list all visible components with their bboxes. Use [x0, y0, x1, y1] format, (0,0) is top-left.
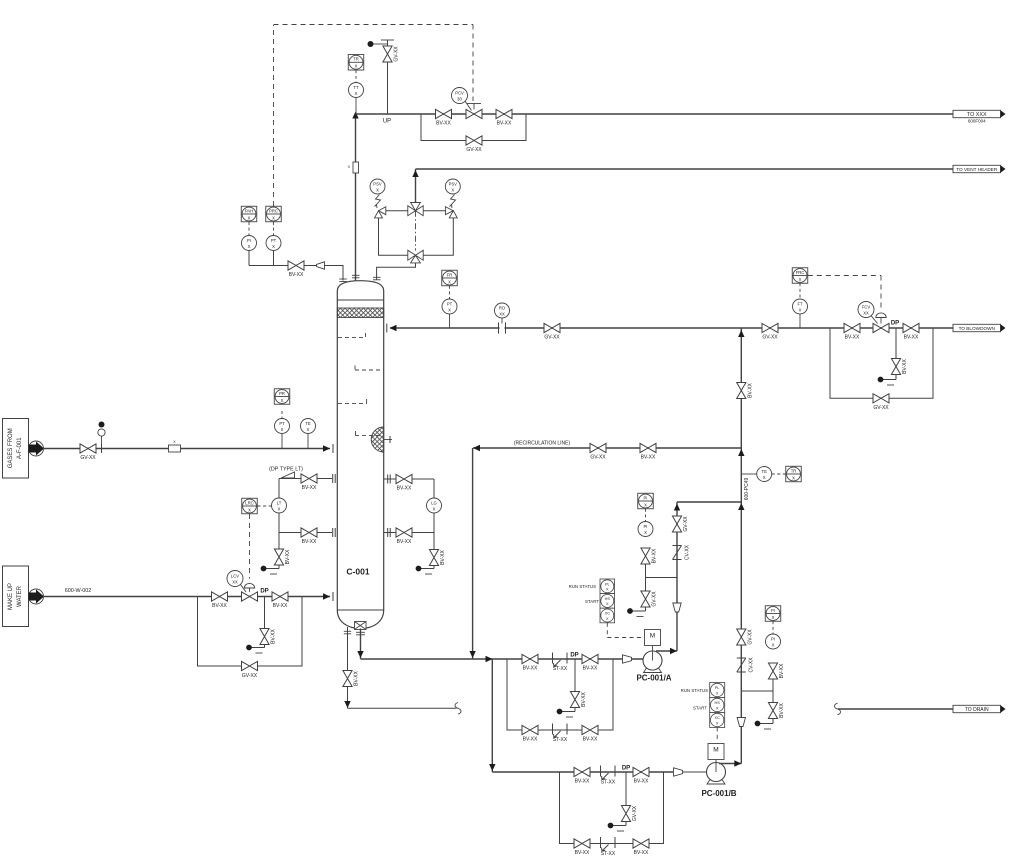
- svg-text:X: X: [644, 502, 647, 507]
- valve BV-XX LT drain: [274, 549, 283, 565]
- svg-text:X: X: [772, 615, 775, 620]
- svg-text:BV-XX: BV-XX: [634, 779, 649, 785]
- wire recirculation downcomer: [472, 448, 474, 659]
- instrument PI/X pump B: [766, 634, 781, 649]
- flag TO XXX 600F004: [953, 110, 1001, 117]
- pump B standby loop: [560, 772, 664, 844]
- blowdown bypass loop with GV-XX: [830, 328, 933, 398]
- valve BV-XX LG lower: [396, 528, 412, 537]
- svg-text:PT: PT: [279, 421, 285, 426]
- svg-text:PI: PI: [247, 238, 251, 243]
- valve BV-XX PI tap A: [641, 548, 650, 564]
- svg-text:BV-XX: BV-XX: [747, 382, 753, 397]
- wire overhead line to TO XXX: [356, 113, 954, 115]
- svg-text:X: X: [433, 507, 436, 512]
- instrument PI shared display pump B: [765, 606, 781, 622]
- svg-text:GV-XX: GV-XX: [466, 147, 482, 153]
- svg-text:GV-XX: GV-XX: [394, 46, 400, 62]
- svg-text:30: 30: [457, 97, 462, 102]
- svg-text:UP: UP: [383, 119, 391, 125]
- svg-text:PI: PI: [771, 637, 775, 642]
- dashed signal LT to LRC: [258, 505, 272, 507]
- svg-text:BV-XX: BV-XX: [497, 121, 512, 127]
- svg-text:PT: PT: [447, 302, 453, 307]
- drain with valve BV-XX at FCV: [895, 328, 897, 359]
- wire drain line with break: [348, 707, 457, 709]
- drain with valve BV-XX pump A suction: [574, 659, 576, 692]
- instrument PRC/X shared display: [266, 206, 282, 222]
- svg-text:BV-XX: BV-XX: [436, 121, 451, 127]
- svg-text:BV-XX: BV-XX: [583, 737, 598, 743]
- strainer ST-XX standby B: [600, 837, 602, 848]
- valve BV-XX overhead upstream: [436, 109, 452, 118]
- svg-text:START: START: [693, 706, 707, 711]
- control valve LCV/XX: [242, 592, 258, 601]
- svg-text:X: X: [281, 427, 284, 432]
- svg-text:X: X: [248, 244, 251, 249]
- svg-text:DP: DP: [622, 766, 630, 772]
- svg-text:PI: PI: [644, 495, 648, 500]
- flag TO DRAIN: [953, 705, 1001, 712]
- valve BV-XX upstream FCV: [844, 323, 860, 332]
- svg-text:600-PC49: 600-PC49: [744, 478, 750, 501]
- svg-text:CV-XX: CV-XX: [685, 544, 691, 560]
- valve BV-XX instrument tap: [288, 261, 304, 270]
- drain with valve BV-XX water line: [264, 597, 266, 629]
- svg-text:X: X: [606, 617, 609, 621]
- reducer pump B suction: [674, 768, 683, 776]
- svg-text:BV-XX: BV-XX: [641, 455, 656, 461]
- reducer pump A discharge: [673, 603, 681, 612]
- column side nozzle with hatched head: [371, 427, 384, 452]
- svg-text:BV-XX: BV-XX: [289, 272, 304, 278]
- dashed signal panel to motor B: [716, 728, 718, 743]
- svg-text:GASES FROM: GASES FROM: [8, 428, 14, 468]
- riser flange ticks: [352, 274, 360, 276]
- instrument TR/X shared display: [355, 70, 357, 82]
- valve BV-XX column drain: [343, 671, 352, 687]
- svg-text:ST-XX: ST-XX: [553, 737, 568, 743]
- svg-text:PI: PI: [771, 608, 775, 613]
- valve BV-XX pump A suction 2: [582, 654, 598, 663]
- svg-text:PL: PL: [605, 582, 610, 586]
- svg-text:CV-XX: CV-XX: [749, 657, 755, 673]
- wire PSV inlet to column nozzle: [377, 263, 416, 280]
- wire LT upper tap: [279, 478, 332, 480]
- svg-text:BV-XX: BV-XX: [302, 485, 317, 491]
- motor M pump B: [708, 744, 724, 760]
- svg-text:GV-XX: GV-XX: [590, 455, 606, 461]
- svg-text:PR: PR: [279, 391, 285, 396]
- wire gases feed line: [43, 448, 330, 450]
- svg-text:ST-XX: ST-XX: [601, 780, 616, 786]
- svg-text:TT: TT: [353, 85, 359, 90]
- svg-text:X: X: [606, 602, 609, 606]
- column internal dashed level 2: [355, 369, 384, 371]
- svg-text:FR: FR: [447, 272, 453, 277]
- svg-text:WATER: WATER: [17, 585, 23, 607]
- instrument FR/X shared display: [442, 270, 458, 286]
- svg-text:ST-XX: ST-XX: [601, 851, 616, 857]
- svg-text:X: X: [272, 215, 275, 220]
- svg-text:BV-XX: BV-XX: [523, 666, 538, 672]
- dashed signal FRC to FCV: [808, 275, 881, 277]
- valve GV-XX blowdown: [544, 323, 560, 332]
- svg-text:BV-XX: BV-XX: [397, 539, 412, 545]
- instrument FRC/X shared display: [792, 268, 808, 284]
- svg-text:LG: LG: [431, 501, 437, 506]
- svg-text:GV-XX: GV-XX: [242, 673, 258, 679]
- svg-text:X: X: [716, 721, 719, 725]
- LT flag symbol: [281, 472, 295, 478]
- valve BV-XX water line: [212, 592, 228, 601]
- svg-text:XC: XC: [605, 612, 611, 616]
- svg-text:BV-XX: BV-XX: [354, 670, 360, 685]
- svg-text:XC: XC: [715, 716, 721, 720]
- vent line UP with valve GV-XX: [387, 62, 389, 114]
- instrument PI/X: [242, 236, 257, 251]
- wire instrument taps to column top nozzle: [248, 251, 250, 266]
- wire to TO VENT HEADER: [416, 168, 954, 170]
- instrument PR shared display gases line: [274, 389, 290, 405]
- wire LT bridle: [278, 479, 280, 499]
- svg-text:TO BLOWDOWN: TO BLOWDOWN: [959, 326, 995, 331]
- instrument LT/X: [272, 498, 287, 513]
- svg-text:M: M: [650, 633, 655, 640]
- svg-text:PRC: PRC: [269, 208, 278, 213]
- strainer ST-XX pump A: [552, 653, 554, 664]
- wire pump discharge header 600-PC49: [740, 328, 742, 764]
- svg-text:GV-XX: GV-XX: [873, 405, 889, 411]
- pump A standby loop: [507, 659, 613, 730]
- column bottom outlet valve: [355, 622, 367, 630]
- sample connection: [101, 444, 103, 453]
- valve GV-XX gases feed: [80, 444, 96, 453]
- instrument LRC shared display: [242, 498, 258, 514]
- svg-text:X: X: [716, 691, 719, 695]
- wire column outlet to pump suction header: [360, 629, 362, 659]
- svg-text:RO: RO: [499, 306, 506, 311]
- valve BV-XX LT lower: [301, 528, 317, 537]
- svg-text:FCV: FCV: [862, 305, 871, 310]
- svg-text:TO DRAIN: TO DRAIN: [965, 707, 989, 713]
- restriction orifice RO/XX: [501, 318, 503, 324]
- wire make-up water line: [43, 596, 330, 598]
- svg-text:M: M: [713, 747, 718, 754]
- svg-text:PSV: PSV: [449, 182, 458, 187]
- wire LG upper tap: [384, 478, 434, 480]
- svg-text:XX: XX: [863, 311, 869, 316]
- svg-text:DP: DP: [260, 589, 268, 595]
- wire LG bridle: [433, 479, 435, 498]
- svg-text:X: X: [281, 398, 284, 403]
- svg-text:PC-001/A: PC-001/A: [636, 674, 671, 683]
- valve GV-XX drain pump A discharge: [641, 591, 650, 607]
- control valve FCV/XX: [873, 323, 889, 332]
- wire PSV left loop: [379, 218, 408, 255]
- valve BV-XX pump A suction: [522, 654, 538, 663]
- wire suction branch to pump B: [491, 659, 493, 772]
- svg-text:MAKE UP: MAKE UP: [8, 583, 14, 610]
- flow arrow into column: [390, 325, 397, 331]
- valve BV-XX downstream FCV: [903, 323, 919, 332]
- wire pump B discharge: [719, 763, 741, 765]
- svg-text:PCV: PCV: [455, 91, 464, 96]
- flow arrow into column water: [323, 593, 330, 599]
- svg-text:TO XXX: TO XXX: [967, 112, 987, 118]
- dash-dot interlock line: [415, 211, 417, 251]
- svg-text:TE: TE: [762, 469, 768, 474]
- svg-text:BV-XX: BV-XX: [397, 486, 412, 492]
- svg-text:X: X: [451, 188, 454, 193]
- svg-text:PT: PT: [271, 238, 277, 243]
- svg-text:BV-XX: BV-XX: [779, 663, 785, 678]
- instrument LG/X: [427, 498, 442, 513]
- valve BV-XX pump B suction: [574, 767, 590, 776]
- three-way valve bottom: [408, 250, 423, 263]
- valve BV-XX standby B right: [633, 839, 649, 848]
- svg-text:BV-XX: BV-XX: [302, 539, 317, 545]
- svg-text:X: X: [799, 277, 802, 282]
- motor M pump A: [645, 630, 661, 646]
- svg-text:GV-XX: GV-XX: [80, 455, 96, 461]
- svg-text:X: X: [606, 588, 609, 592]
- dashed signal panel to motor A: [606, 623, 608, 638]
- instrument TT/X: [355, 97, 357, 114]
- svg-text:GV-XX: GV-XX: [747, 629, 753, 645]
- svg-text:X: X: [792, 475, 795, 480]
- svg-text:BV-XX: BV-XX: [634, 850, 649, 856]
- flag TO BLOWDOWN: [953, 324, 1001, 331]
- svg-text:BV-XX: BV-XX: [575, 850, 590, 856]
- wire pump suction header: [361, 658, 644, 660]
- valve BV-XX overhead downstream: [496, 109, 512, 118]
- svg-text:C-001: C-001: [346, 567, 369, 577]
- wire PSV right loop: [423, 218, 453, 255]
- svg-text:TR: TR: [353, 57, 359, 62]
- svg-text:GV-XX: GV-XX: [683, 516, 689, 532]
- svg-text:BV-XX: BV-XX: [845, 335, 860, 341]
- svg-text:X: X: [355, 64, 358, 69]
- inline flame arrestor X: [353, 162, 359, 173]
- svg-text:X: X: [376, 188, 379, 193]
- svg-text:PI: PI: [644, 524, 648, 529]
- valve BV-XX recirculation: [640, 443, 656, 452]
- svg-text:600-W-002: 600-W-002: [65, 588, 92, 594]
- pump B discharge PI branch: [741, 690, 773, 692]
- check valve CV-XX pump B discharge: [737, 657, 746, 659]
- svg-text:TR: TR: [791, 468, 797, 473]
- wire overhead riser: [355, 114, 357, 281]
- svg-text:LT: LT: [277, 501, 282, 506]
- svg-text:FT: FT: [797, 302, 803, 307]
- svg-text:X: X: [355, 91, 358, 96]
- strainer ST-XX standby A: [552, 724, 554, 735]
- svg-text:BV-XX: BV-XX: [440, 549, 446, 564]
- wire to drain with break: [838, 708, 953, 710]
- svg-text:BV-XX: BV-XX: [652, 548, 658, 563]
- strainer ST-XX pump B: [600, 766, 602, 777]
- svg-text:HS: HS: [605, 597, 611, 601]
- svg-text:TE: TE: [305, 421, 311, 426]
- instrument PT/X: [266, 236, 281, 251]
- valve GV-XX recirculation: [590, 443, 606, 452]
- valve BV-XX LT upper: [301, 474, 317, 483]
- svg-text:BV-XX: BV-XX: [779, 702, 785, 717]
- svg-text:XX: XX: [499, 312, 505, 317]
- pump A discharge PI branch: [646, 577, 678, 579]
- reducer pump B discharge: [737, 718, 745, 727]
- svg-text:LRC: LRC: [245, 500, 253, 505]
- svg-text:XX: XX: [232, 580, 238, 585]
- valve BV-XX LG upper: [396, 474, 412, 483]
- three-way valve top: [408, 203, 423, 216]
- svg-text:START: START: [585, 599, 599, 604]
- flow arrow up at elbow: [352, 112, 358, 119]
- column top weld line: [337, 299, 383, 301]
- wire pump A discharge: [656, 650, 677, 652]
- valve BV-XX PI tap B: [768, 663, 777, 679]
- svg-text:BV-XX: BV-XX: [523, 737, 538, 743]
- svg-text:RUN STATUS: RUN STATUS: [569, 584, 596, 589]
- water bypass loop with GV-XX: [198, 597, 303, 667]
- column packing band: [337, 308, 383, 318]
- control valve PCV/30: [466, 109, 482, 118]
- svg-text:X: X: [248, 215, 251, 220]
- svg-text:BV-XX: BV-XX: [902, 358, 908, 373]
- valve BV-XX standby A right: [582, 725, 598, 734]
- svg-text:BV-XX: BV-XX: [212, 603, 227, 609]
- valve GV-XX pump A discharge: [672, 516, 681, 532]
- dashed signal LRC to LCV: [249, 514, 251, 579]
- check valve CV-XX pump A discharge: [673, 545, 682, 547]
- svg-text:X: X: [307, 427, 310, 432]
- svg-text:HS: HS: [715, 701, 721, 705]
- reducer: [317, 262, 325, 269]
- wire PSV vent riser: [415, 169, 417, 203]
- column internal dashed level 4: [355, 434, 384, 436]
- svg-text:(DP TYPE LT): (DP TYPE LT): [269, 467, 303, 473]
- wire column drain leg: [347, 627, 349, 671]
- svg-text:BV-XX: BV-XX: [904, 335, 919, 341]
- svg-text:X: X: [799, 308, 802, 313]
- instrument PT/X on blowdown: [449, 314, 451, 328]
- svg-text:DP: DP: [570, 653, 578, 659]
- svg-text:TO VENT HEADER: TO VENT HEADER: [956, 167, 998, 172]
- svg-text:X: X: [272, 244, 275, 249]
- svg-text:BV-XX: BV-XX: [575, 779, 590, 785]
- svg-text:(RECIRCULATION LINE): (RECIRCULATION LINE): [514, 441, 571, 447]
- svg-text:A-F-001: A-F-001: [17, 437, 23, 459]
- valve GV-XX blowdown right: [762, 323, 778, 332]
- instrument PT/X gases line: [281, 434, 283, 449]
- svg-text:X: X: [448, 279, 451, 284]
- svg-text:PSV: PSV: [373, 182, 382, 187]
- svg-text:GV-XX: GV-XX: [632, 805, 638, 821]
- relief valve PSV right: [423, 210, 445, 212]
- svg-text:BV-XX: BV-XX: [581, 691, 587, 706]
- wire blowdown line: [390, 327, 953, 329]
- instrument PI shared display pump A: [638, 493, 654, 509]
- svg-text:X: X: [772, 643, 775, 648]
- svg-text:PC-001/B: PC-001/B: [701, 789, 736, 798]
- flow arrow at pump A discharge tee: [738, 503, 744, 510]
- svg-text:RUN STATUS: RUN STATUS: [681, 688, 708, 693]
- svg-text:X: X: [448, 308, 451, 313]
- column C-001 shell: [337, 281, 383, 629]
- svg-text:PL: PL: [715, 686, 720, 690]
- wire to nozzle: [325, 266, 344, 281]
- flag GASES FROM A-F-001: [3, 419, 29, 479]
- dashed signal PRC to PCV: [273, 25, 275, 206]
- instrument PAH/X shared display: [241, 206, 257, 222]
- flow arrow into column gases: [323, 445, 330, 451]
- run status panel pump B: [710, 683, 725, 698]
- wire recirculation line: [473, 447, 741, 449]
- svg-text:X: X: [278, 507, 281, 512]
- svg-text:BV-XX: BV-XX: [273, 603, 288, 609]
- instrument PI/X pump A: [638, 522, 653, 537]
- instrument TE/X gases line: [307, 434, 309, 449]
- svg-text:ST-XX: ST-XX: [553, 666, 568, 672]
- svg-text:X: X: [716, 706, 719, 710]
- overhead bypass loop with GV-XX: [421, 114, 526, 141]
- valve BV-XX drain pump B discharge: [768, 703, 777, 719]
- svg-text:LCV: LCV: [231, 574, 239, 579]
- svg-text:BV-XX: BV-XX: [285, 549, 291, 564]
- relief valve PSV left: [386, 210, 408, 212]
- dashed signal lines: [248, 222, 250, 235]
- svg-text:GV-XX: GV-XX: [544, 335, 560, 341]
- instrument FT/X: [799, 314, 801, 328]
- svg-text:FRC: FRC: [796, 270, 805, 275]
- wire LT lower tap: [279, 532, 332, 534]
- flow arrow recirculation: [473, 445, 480, 451]
- drain with valve GV-XX pump B suction: [625, 772, 627, 806]
- svg-text:GV-XX: GV-XX: [762, 335, 778, 341]
- svg-text:600F004: 600F004: [968, 119, 986, 124]
- pump PC-001/B: [707, 763, 726, 782]
- pump PC-001/A: [643, 651, 662, 670]
- valve BV-XX pump B suction 2: [633, 767, 649, 776]
- svg-text:PAH: PAH: [245, 208, 253, 213]
- run status panel pump A: [600, 579, 615, 594]
- wire LG lower tap: [384, 532, 434, 534]
- svg-text:X: X: [763, 475, 766, 480]
- flag TO VENT HEADER: [953, 165, 1001, 172]
- svg-text:BV-XX: BV-XX: [583, 666, 598, 672]
- column bottom weld line: [337, 609, 383, 611]
- instrument TE/X with TR/X: [741, 473, 756, 475]
- svg-text:X: X: [248, 507, 251, 512]
- valve BV-XX water line 2: [272, 592, 288, 601]
- valve BV-XX standby B left: [574, 839, 590, 848]
- valve BV-XX LG drain: [429, 550, 438, 566]
- reducer pump A suction: [623, 655, 632, 663]
- svg-text:X: X: [644, 530, 647, 535]
- svg-text:GV-XX: GV-XX: [652, 591, 658, 607]
- valve GV-XX pump B discharge: [737, 629, 746, 645]
- valve BV-XX standby A left: [522, 725, 538, 734]
- flag MAKE UP WATER: [3, 566, 29, 627]
- column internal dashed level 1: [338, 337, 366, 339]
- flow arrow at recirculation tee: [738, 449, 744, 456]
- svg-text:BV-XX: BV-XX: [271, 628, 277, 643]
- inline flow element X: [169, 445, 181, 452]
- valve BV-XX on discharge header: [737, 383, 746, 399]
- svg-text:DP: DP: [891, 321, 899, 327]
- column internal dashed level 3: [338, 403, 367, 405]
